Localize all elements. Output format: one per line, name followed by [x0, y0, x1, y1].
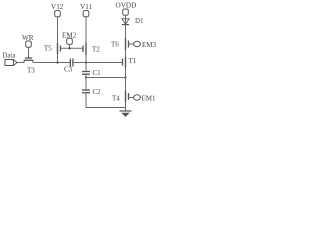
diode D1 (OLED) [122, 19, 129, 25]
svg-text:C1: C1 [93, 69, 102, 77]
terminal EM2 port [67, 38, 73, 44]
terminal Data input tag [5, 60, 17, 66]
transistor T1 [123, 57, 126, 68]
svg-text:V11: V11 [80, 3, 93, 11]
wire row segment T3 to C3 [33, 62, 70, 64]
ground [120, 111, 132, 117]
terminal V12 port [55, 11, 61, 17]
svg-text:T6: T6 [111, 41, 119, 49]
svg-text:OVDD: OVDD [116, 2, 137, 10]
svg-text:EM1: EM1 [142, 95, 157, 103]
svg-text:Data: Data [3, 52, 16, 59]
transistor T6 [126, 39, 129, 50]
wire T1 source down through mid junction to T4 [125, 68, 127, 92]
node junction right column mid [124, 76, 126, 78]
wire mid node to right column [86, 77, 126, 79]
wire V11 to T2 drain [85, 17, 87, 43]
svg-text:T1: T1 [129, 57, 137, 65]
wire C2 bottom down and right to ground column [86, 93, 126, 108]
node junction EM2-gate wire [68, 47, 70, 49]
transistor T3 [24, 58, 34, 63]
wire WR stem to T3 gate [28, 47, 30, 58]
terminal OVDD port [123, 9, 129, 15]
transistor T5 [58, 43, 61, 54]
wire T5 source down to row [57, 54, 59, 63]
svg-text:C3: C3 [64, 66, 73, 74]
svg-text:T3: T3 [27, 67, 35, 75]
svg-text:C2: C2 [93, 88, 102, 96]
svg-text:T2: T2 [92, 46, 100, 54]
wire row node down to C1 [85, 63, 87, 72]
wire row segment C3 to T1 [73, 62, 123, 64]
svg-text:V12: V12 [51, 3, 64, 11]
svg-text:T4: T4 [112, 95, 120, 103]
node junction T2-row [85, 61, 87, 63]
wire EM2 stem [69, 44, 71, 48]
wire Data to T3 [17, 62, 24, 64]
wire V12 to T5 drain [57, 17, 59, 43]
wire OVDD to D1 [125, 15, 127, 24]
wire gate net T5-EM2-T2 [61, 47, 84, 49]
transistor T4 [126, 91, 129, 102]
node junction C1/C2 mid node [85, 76, 87, 78]
transistor T2 [83, 43, 86, 55]
node junction T5-row [56, 61, 58, 63]
capacitor C1 [82, 72, 90, 75]
capacitor C2 [82, 90, 90, 93]
wire T6 to T1 [125, 50, 127, 57]
wire T4 gate lead [129, 97, 134, 99]
terminal EM1 port [134, 95, 141, 100]
wire T4 source to ground [125, 102, 127, 111]
svg-text:D1: D1 [135, 17, 144, 25]
terminal EM3 port [134, 41, 141, 46]
terminal WR port [26, 41, 32, 47]
svg-text:T5: T5 [44, 45, 52, 53]
wire C1 bottom to mid node [85, 74, 87, 77]
svg-text:EM3: EM3 [142, 41, 157, 49]
wire T2 source down to row [85, 55, 87, 63]
wire T6 gate lead [129, 43, 134, 45]
wire D1 to T6 [125, 24, 127, 38]
wire mid node down to C2 [85, 78, 87, 91]
capacitor C3 (series in row wire) [70, 59, 73, 67]
terminal V11 port [83, 11, 89, 17]
